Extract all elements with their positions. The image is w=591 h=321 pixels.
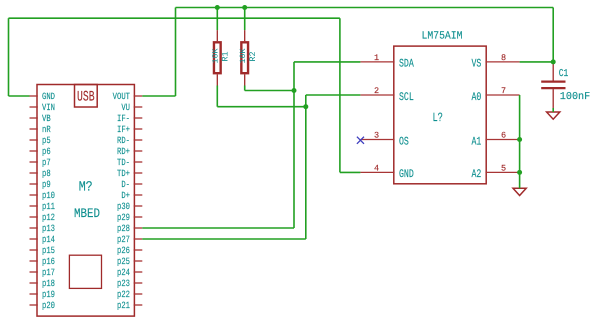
MBED pin p23 (134, 282, 143, 284)
svg-text:2: 2 (374, 86, 379, 96)
ground symbol below A2 (513, 188, 526, 195)
svg-text:GND: GND (42, 91, 55, 102)
wire +3V3 drop to C1 (552, 8, 554, 62)
svg-text:6: 6 (501, 131, 506, 141)
svg-text:p10: p10 (42, 190, 55, 201)
wire GND to MBED (9, 95, 30, 97)
wire SCL horizontal (306, 94, 361, 96)
svg-text:USB: USB (77, 90, 95, 106)
LM75 pin 6 A1 (485, 139, 519, 141)
svg-text:p13: p13 (42, 223, 55, 234)
svg-text:3: 3 (374, 131, 379, 141)
MBED pin p25 (134, 260, 143, 262)
svg-text:p24: p24 (117, 267, 130, 278)
resistor R2 10K (244, 30, 246, 41)
svg-text:VOUT: VOUT (113, 91, 131, 102)
junction A2 (517, 170, 522, 175)
svg-text:p11: p11 (42, 201, 55, 212)
svg-text:VS: VS (471, 58, 481, 71)
wire +3V3 top rail (176, 7, 554, 9)
MBED pin IF+ (134, 128, 143, 130)
svg-text:p15: p15 (42, 245, 55, 256)
svg-text:TD-: TD- (117, 157, 130, 168)
svg-text:A2: A2 (471, 168, 481, 181)
svg-text:p18: p18 (42, 278, 55, 289)
MBED pin VOUT (134, 95, 143, 97)
LM75 pin 5 A2 (485, 171, 519, 173)
wire VS to C1 (520, 61, 554, 63)
MBED pin IF- (134, 117, 143, 119)
MBED pin nR (30, 128, 38, 130)
MBED pin p22 (134, 293, 143, 295)
wire GND drop to LM75 (339, 18, 341, 172)
svg-text:8: 8 (501, 53, 506, 63)
svg-text:VIN: VIN (42, 102, 55, 113)
wire SDA vertical (293, 62, 295, 228)
LM75 pin 1 SDA (360, 61, 394, 63)
svg-text:A0: A0 (471, 91, 481, 104)
MBED pin p10 (30, 194, 38, 196)
svg-text:p14: p14 (42, 234, 55, 245)
wire SDA to p28 (142, 227, 294, 229)
svg-text:p25: p25 (117, 256, 130, 267)
svg-text:p16: p16 (42, 256, 55, 267)
svg-text:7: 7 (501, 86, 506, 96)
junction R1/+3V3 (215, 5, 220, 10)
junction SDA/R2 (292, 88, 297, 93)
svg-text:nR: nR (42, 124, 51, 135)
resistor R1 10K (216, 30, 218, 41)
svg-text:D-: D- (121, 179, 130, 190)
svg-text:p23: p23 (117, 278, 130, 289)
svg-text:p6: p6 (42, 146, 51, 157)
wire C1 to ground (552, 108, 554, 112)
junction VS/C1/+3V3 (551, 59, 556, 64)
junction SCL/R1 (303, 104, 308, 109)
svg-text:GND: GND (399, 168, 414, 181)
MBED pin p6 (30, 150, 38, 152)
svg-text:SDA: SDA (399, 58, 414, 71)
svg-text:p19: p19 (42, 289, 55, 300)
MBED pin RD+ (134, 150, 143, 152)
svg-text:p21: p21 (117, 300, 130, 311)
svg-text:p9: p9 (42, 179, 51, 190)
MBED pin p21 (134, 304, 143, 306)
wire SDA horizontal (294, 61, 360, 63)
wire GND riser left (8, 18, 10, 96)
MBED pin p15 (30, 249, 38, 251)
ic U-LM75 body (394, 46, 486, 184)
MBED pin p19 (30, 293, 38, 295)
svg-text:10K: 10K (239, 48, 248, 63)
MBED pin p9 (30, 183, 38, 185)
svg-text:p28: p28 (117, 223, 130, 234)
wire R1 to SCL (217, 106, 305, 108)
wire R2 bottom drop (244, 86, 246, 91)
svg-text:R2: R2 (248, 52, 258, 62)
svg-text:10K: 10K (212, 48, 221, 63)
svg-text:100nF: 100nF (560, 91, 591, 103)
junction A1 (517, 137, 522, 142)
svg-text:IF+: IF+ (117, 124, 130, 135)
svg-text:TD+: TD+ (117, 168, 130, 179)
wire SCL to p27 (142, 238, 305, 240)
LM75 pin 8 VS (485, 61, 519, 63)
svg-text:LM75AIM: LM75AIM (422, 30, 463, 42)
svg-text:D+: D+ (121, 190, 130, 201)
svg-text:C1: C1 (559, 68, 569, 80)
ic U-MBED body (37, 85, 134, 317)
svg-text:1: 1 (374, 53, 379, 63)
ground symbol below C1 (547, 112, 560, 119)
MBED pin VU (134, 106, 143, 108)
svg-text:5: 5 (501, 163, 506, 173)
MBED pin p29 (134, 216, 143, 218)
MBED pin p11 (30, 205, 38, 207)
LM75 pin 2 SCL (360, 94, 394, 96)
MBED pin p5 (30, 139, 38, 141)
MBED pin p16 (30, 260, 38, 262)
MBED pin p20 (30, 304, 38, 306)
MBED pin RD- (134, 139, 143, 141)
MBED pin p28 (134, 227, 143, 229)
svg-text:M?: M? (79, 180, 93, 196)
MBED pin p14 (30, 238, 38, 240)
wire SCL vertical (305, 95, 307, 239)
MBED pin TD+ (134, 172, 143, 174)
svg-text:p7: p7 (42, 157, 51, 168)
MBED pin GND (30, 95, 38, 97)
wire R1 top (216, 8, 218, 31)
svg-text:RD-: RD- (117, 135, 130, 146)
MBED pin p8 (30, 172, 38, 174)
svg-text:p27: p27 (117, 234, 130, 245)
svg-text:p29: p29 (117, 212, 130, 223)
LM75 pin 7 A0 (485, 94, 519, 96)
svg-text:R1: R1 (221, 52, 231, 62)
LM75 pin 4 GND (360, 171, 394, 173)
svg-text:VB: VB (42, 113, 51, 124)
svg-text:p5: p5 (42, 135, 51, 146)
svg-text:p17: p17 (42, 267, 55, 278)
wire VOUT riser (175, 8, 177, 97)
LM75 pin 3 OS (360, 139, 394, 141)
wire VOUT link (142, 95, 175, 97)
MBED pin VIN (30, 106, 38, 108)
svg-text:4: 4 (374, 163, 379, 173)
wire R2 top (244, 8, 246, 31)
MBED pin p18 (30, 282, 38, 284)
svg-text:IF-: IF- (117, 113, 130, 124)
svg-text:p22: p22 (117, 289, 130, 300)
wire GND rail (9, 17, 340, 19)
MBED pin p7 (30, 161, 38, 163)
MBED USB connector box (75, 85, 98, 108)
MBED pin p24 (134, 271, 143, 273)
svg-text:VU: VU (121, 102, 130, 113)
MBED pin p12 (30, 216, 38, 218)
no-connect X on OS pin (357, 137, 364, 144)
MBED pin p17 (30, 271, 38, 273)
svg-text:A1: A1 (471, 135, 481, 148)
svg-text:p30: p30 (117, 201, 130, 212)
MBED pin VB (30, 117, 38, 119)
MBED pin p27 (134, 238, 143, 240)
MBED pin p30 (134, 205, 143, 207)
MBED pin p13 (30, 227, 38, 229)
wire A0-A1-A2 vertical (519, 95, 521, 188)
MBED pin TD- (134, 161, 143, 163)
svg-text:OS: OS (399, 135, 409, 148)
wire R2 to SDA (245, 90, 294, 92)
wire GND into pin4 (340, 171, 361, 173)
svg-text:p20: p20 (42, 300, 55, 311)
MBED ethernet box (69, 255, 101, 288)
svg-text:SCL: SCL (399, 91, 414, 104)
MBED pin D+ (134, 194, 143, 196)
svg-text:p8: p8 (42, 168, 51, 179)
svg-text:MBED: MBED (74, 206, 100, 221)
svg-text:RD+: RD+ (117, 146, 130, 157)
svg-text:p26: p26 (117, 245, 130, 256)
svg-text:L?: L? (432, 111, 443, 125)
svg-text:p12: p12 (42, 212, 55, 223)
MBED pin D- (134, 183, 143, 185)
MBED pin p26 (134, 249, 143, 251)
wire R1 bottom drop (216, 86, 218, 107)
junction R2/+3V3 (242, 5, 247, 10)
capacitor C1 (552, 62, 554, 81)
